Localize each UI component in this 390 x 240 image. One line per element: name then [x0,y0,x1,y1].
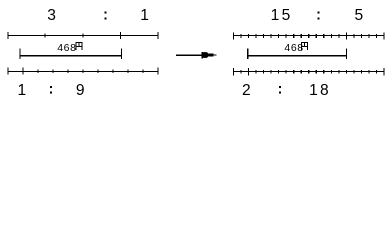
svg-text:3: 3 [47,7,56,24]
label : (top-left ratio colon) [105,12,107,20]
svg-text:1: 1 [140,7,149,24]
svg-text:8: 8 [320,82,329,99]
minor ticks D16-D19 [353,34,354,38]
major tick A4 [158,32,159,39]
glyph yen-circle (left) drawn [76,42,83,50]
major tick D20 [383,32,384,39]
svg-text:468: 468 [57,42,76,54]
minor tick A2 [82,34,83,38]
label : (bottom-right colon) [279,86,281,94]
major tick C1 [22,67,23,74]
arrow (center) [176,52,217,59]
svg-text:5: 5 [282,7,291,24]
minor ticks F3-F19 [256,70,257,74]
major tick A3 [120,32,121,39]
minor tick F1 [241,70,242,74]
label : (top-right colon) [317,12,319,20]
major tick D15 [346,32,347,39]
svg-text:5: 5 [354,7,363,24]
svg-text:9: 9 [76,82,85,99]
major tick D0 [233,32,234,39]
wire line A (top-left bar, 4 divisions) [7,32,158,39]
svg-text:468: 468 [284,42,303,54]
minor ticks D1-D14 [241,34,242,38]
major tick F20 [383,68,384,75]
dimension line E (right 468-yen bracket) [247,49,347,59]
minor tick A1 [45,34,46,38]
label : (bottom-left colon) [50,86,52,94]
glyph yen-circle (right) drawn [301,42,308,50]
svg-text:2: 2 [242,82,251,99]
major tick C0 [7,67,8,74]
wire line F (bottom-right bar, 20 divisions) [233,68,385,75]
major tick F0 [233,68,234,75]
major tick A0 [7,32,8,39]
svg-text:1: 1 [271,7,280,24]
major tick C10 [158,67,159,74]
dimension line B (left 468-yen bracket) [19,49,122,59]
minor ticks C2-C9 [37,70,38,74]
wire line C (bottom-left bar, 10 divisions) [7,67,158,74]
major tick F2 [248,68,249,75]
svg-text:1: 1 [309,82,318,99]
wire line D (top-right bar, 20 divisions) [233,32,385,39]
svg-text:1: 1 [17,82,26,99]
